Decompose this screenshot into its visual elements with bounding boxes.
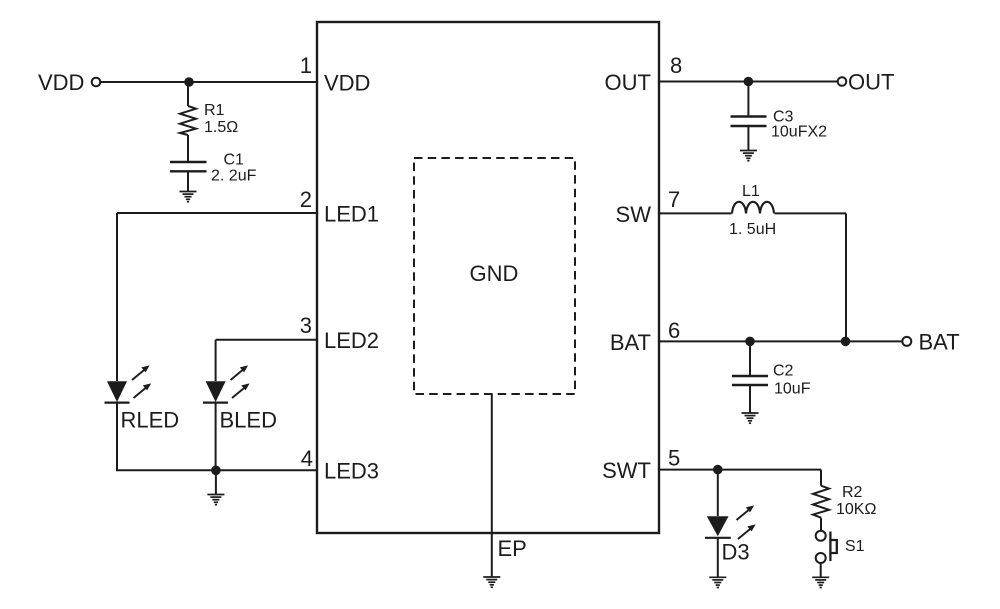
svg-text:LED2: LED2 — [324, 328, 379, 353]
svg-text:BAT: BAT — [919, 330, 960, 355]
svg-text:1.5Ω: 1.5Ω — [204, 119, 238, 136]
svg-text:D3: D3 — [722, 540, 750, 565]
svg-text:EP: EP — [498, 536, 527, 561]
svg-text:C1: C1 — [224, 152, 245, 169]
svg-text:L1: L1 — [742, 183, 760, 200]
svg-text:C2: C2 — [773, 363, 794, 380]
svg-text:R1: R1 — [204, 102, 225, 119]
svg-text:RLED: RLED — [121, 408, 180, 433]
svg-text:2. 2uF: 2. 2uF — [211, 168, 257, 185]
svg-text:LED3: LED3 — [324, 459, 379, 484]
svg-text:10uF: 10uF — [774, 381, 811, 398]
svg-text:7: 7 — [668, 187, 680, 212]
svg-text:VDD: VDD — [324, 71, 370, 96]
svg-text:R2: R2 — [842, 484, 863, 501]
svg-text:3: 3 — [300, 313, 312, 338]
svg-text:GND: GND — [470, 261, 519, 286]
svg-text:10uFX2: 10uFX2 — [771, 124, 827, 141]
svg-text:8: 8 — [670, 53, 682, 78]
svg-text:S1: S1 — [845, 538, 865, 555]
svg-text:SW: SW — [616, 202, 652, 227]
svg-text:1: 1 — [300, 53, 312, 78]
svg-text:2: 2 — [300, 187, 312, 212]
svg-text:6: 6 — [668, 318, 680, 343]
svg-text:OUT: OUT — [848, 70, 894, 95]
svg-text:5: 5 — [668, 446, 680, 471]
svg-text:10KΩ: 10KΩ — [836, 501, 876, 518]
svg-text:1. 5uH: 1. 5uH — [729, 221, 776, 238]
svg-text:SWT: SWT — [602, 458, 651, 483]
svg-text:4: 4 — [301, 446, 313, 471]
svg-text:VDD: VDD — [38, 70, 84, 95]
svg-text:BAT: BAT — [610, 330, 651, 355]
svg-text:LED1: LED1 — [324, 202, 379, 227]
svg-text:OUT: OUT — [605, 70, 651, 95]
svg-text:BLED: BLED — [220, 408, 277, 433]
